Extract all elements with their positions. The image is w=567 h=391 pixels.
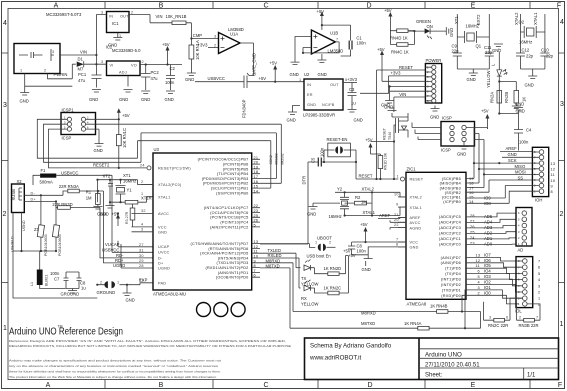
resistor RN4C 1K [397, 43, 408, 47]
svg-text:(AIN0)PD6: (AIN0)PD6 [441, 261, 461, 265]
svg-text:XT1: XT1 [454, 16, 459, 24]
svg-text:PGB1010603: PGB1010603 [44, 234, 48, 256]
svg-text:+5V: +5V [162, 42, 170, 47]
ground under IC1 [113, 38, 122, 41]
svg-text:GND: GND [410, 246, 419, 250]
svg-text:RN2A: RN2A [490, 92, 495, 103]
svg-text:USHIELD: USHIELD [11, 236, 15, 252]
svg-text:(ADC3)PC3: (ADC3)PC3 [439, 226, 461, 230]
svg-text:(RTS/AIN5/INT6)PD6: (RTS/AIN5/INT6)PD6 [208, 247, 248, 251]
op-amp U1B [311, 30, 335, 54]
ground under U1B [317, 54, 326, 63]
ZIC1 right pins PD [441, 256, 461, 298]
svg-text:(TXD)PD1: (TXD)PD1 [442, 289, 461, 293]
svg-text:9: 9 [551, 184, 553, 188]
svg-text:USBVCC: USBVCC [102, 247, 119, 252]
svg-text:Arduino UNO: Arduino UNO [425, 351, 462, 358]
svg-text:GND: GND [492, 48, 501, 53]
svg-text:TX: TX [301, 276, 307, 281]
ground above led L [494, 44, 503, 49]
svg-text:UGND: UGND [22, 220, 26, 231]
ground under jumper [123, 285, 132, 296]
svg-text:ICSP: ICSP [441, 148, 451, 153]
varistor Z2 [55, 208, 57, 252]
svg-text:VCC: VCC [158, 226, 167, 230]
svg-text:1M: 1M [86, 196, 92, 201]
svg-text:6: 6 [506, 316, 508, 320]
svg-text:1K RN2C: 1K RN2C [324, 286, 342, 291]
svg-text:GATE_CMD: GATE_CMD [252, 53, 257, 76]
svg-text:GND: GND [126, 298, 135, 303]
row tick marks left [2, 53, 9, 283]
svg-text:3: 3 [214, 35, 216, 39]
svg-text:+5V: +5V [122, 113, 130, 118]
svg-text:MISO: MISO [515, 164, 526, 169]
svg-text:100n: 100n [519, 140, 529, 145]
resistor RN4D 1K [397, 29, 408, 33]
svg-text:1: 1 [397, 175, 399, 179]
svg-text:X2: X2 [17, 179, 23, 184]
power jack X1 PWRIN [14, 44, 60, 74]
svg-text:3: 3 [489, 316, 491, 320]
ground above C4 [514, 108, 523, 111]
svg-text:XT2: XT2 [103, 174, 111, 179]
svg-text:(INT0)PD2: (INT0)PD2 [441, 283, 461, 287]
svg-text:10: 10 [394, 192, 399, 196]
svg-text:IO6: IO6 [484, 258, 491, 263]
svg-text:(PCINT7/OC0A/OC1C)PB7: (PCINT7/OC0A/OC1C)PB7 [198, 158, 249, 162]
ground for green led rotated [446, 27, 449, 35]
svg-text:+5V: +5V [481, 109, 489, 114]
svg-text:TXLED: TXLED [268, 248, 282, 253]
pin XTAL2 left [141, 184, 153, 186]
svg-text:GND: GND [449, 28, 454, 37]
ground near T2 [388, 108, 409, 117]
wire bus MOSI2 row [86, 124, 282, 183]
svg-text:The product information on the: The product information on the Web Site … [9, 375, 217, 379]
pin numbers IOL right [538, 260, 540, 307]
capacitor C1 100n [322, 25, 351, 56]
svg-text:GND: GND [165, 97, 174, 102]
svg-text:POWER: POWER [426, 58, 442, 63]
svg-text:15: 15 [469, 196, 474, 200]
svg-text:(OC1)PB1: (OC1)PB1 [442, 196, 461, 200]
ZIC1 right pins PB [440, 177, 461, 204]
AD CONNECTOR SECTION [466, 208, 532, 253]
svg-text:U2: U2 [304, 72, 310, 77]
svg-text:+5V: +5V [259, 76, 267, 81]
ground under Y2 area [309, 203, 341, 209]
svg-text:Arduino UNO Reference Design: Arduino UNO Reference Design [9, 326, 123, 338]
svg-text:PAD: PAD [158, 282, 166, 286]
svg-text:RESET2: RESET2 [93, 163, 110, 168]
svg-text:ER: ER [307, 93, 313, 97]
regulator IC1 [107, 12, 130, 33]
M8 SERIAL SECTION [260, 259, 481, 331]
wire U2 gnd pin down [293, 106, 301, 113]
svg-text:4: 4 [560, 19, 564, 26]
svg-text:ZIC1: ZIC1 [407, 167, 417, 172]
svg-text:+5V: +5V [343, 249, 351, 254]
pin RESET left [147, 166, 151, 170]
svg-text:2: 2 [214, 44, 216, 48]
wire icsp left pins [412, 123, 441, 140]
svg-text:MOSI2: MOSI2 [280, 153, 284, 164]
U3 right pins group PB [198, 158, 249, 196]
svg-text:MOSI: MOSI [515, 170, 526, 175]
svg-text:(INT1)PD3: (INT1)PD3 [441, 278, 461, 282]
svg-text:(T0)PD4: (T0)PD4 [445, 272, 461, 276]
svg-text:2: 2 [329, 241, 331, 245]
AREF C4 SECTION [481, 102, 532, 151]
svg-text:Schema By Adriano Gandolfo: Schema By Adriano Gandolfo [310, 343, 392, 350]
svg-text:RESET: RESET [383, 127, 387, 140]
svg-text:(AIN2/PCINT11)PC2: (AIN2/PCINT11)PC2 [210, 225, 248, 229]
svg-text:12: 12 [551, 168, 556, 172]
svg-text:21: 21 [394, 213, 399, 217]
+5V arrow above RN4D [389, 15, 391, 31]
svg-text:UGND: UGND [113, 263, 125, 268]
svg-text:100n: 100n [165, 80, 175, 85]
resistor RN1C 10K vertical [116, 135, 121, 146]
svg-text:C5: C5 [311, 157, 316, 163]
svg-text:(ADC5)PC5: (ADC5)PC5 [439, 215, 461, 219]
svg-text:(CTS/HWB/AIN6/TO/INT7)PD7: (CTS/HWB/AIN6/TO/INT7)PD7 [191, 242, 249, 246]
ground under R1 [93, 207, 102, 210]
ZIC1 left pins [401, 177, 405, 181]
wire usb shield gnd rail [13, 213, 97, 299]
svg-text:ICSP: ICSP [442, 116, 452, 121]
svg-text:SCK: SCK [508, 158, 517, 163]
svg-text:XT1: XT1 [123, 173, 131, 178]
svg-text:1: 1 [117, 281, 119, 285]
svg-text:AD: AD [518, 248, 524, 253]
svg-text:USBVCC: USBVCC [208, 76, 225, 81]
svg-text:2: 2 [478, 291, 480, 295]
svg-text:VO: VO [131, 64, 137, 68]
svg-text:GND: GND [307, 212, 316, 217]
svg-text:PC1: PC1 [78, 72, 87, 77]
svg-text:GND: GND [381, 103, 390, 108]
column letters bottom [46, 382, 562, 389]
wire crystal top rail [98, 180, 138, 185]
svg-text:C: C [263, 382, 268, 389]
POWERCONN SECTION [360, 47, 442, 180]
svg-text:F1: F1 [41, 168, 47, 173]
svg-text:PGB1010603: PGB1010603 [58, 234, 62, 256]
title block outer box [305, 338, 559, 380]
svg-text:27: 27 [139, 243, 144, 247]
wire R1 bottom rail [97, 185, 99, 202]
ground under C7 C8 [68, 289, 77, 294]
wire jack to VIN node [60, 54, 96, 56]
svg-text:IO5: IO5 [484, 263, 491, 268]
TXRX LED SECTION [260, 248, 351, 307]
ground under C3 [348, 110, 357, 113]
svg-text:3: 3 [52, 50, 54, 54]
ground for ZIC1 [352, 247, 406, 255]
svg-text:7: 7 [536, 316, 538, 320]
wire bus MISO2 row [141, 133, 276, 179]
svg-text:2: 2 [519, 316, 521, 320]
svg-text:GND: GND [287, 118, 296, 123]
wire IC2 ADJ to ground [127, 76, 129, 87]
svg-text:30: 30 [139, 254, 144, 258]
svg-text:Y2: Y2 [337, 187, 343, 192]
svg-text:R1: R1 [86, 190, 92, 195]
resistor RN1B [172, 21, 186, 25]
svg-text:16MHz: 16MHz [519, 40, 532, 45]
column letters top [54, 3, 561, 10]
svg-text:13: 13 [476, 253, 481, 257]
svg-text:10K_RN1B: 10K_RN1B [166, 14, 187, 19]
svg-text:10: 10 [551, 179, 556, 183]
svg-text:1K RN4B: 1K RN4B [430, 304, 448, 309]
diode D1 M7 [72, 63, 106, 65]
svg-text:(INT5/AIN3)PD4: (INT5/AIN3)PD4 [218, 256, 249, 260]
svg-text:17: 17 [469, 186, 474, 190]
wire U2 out +3V3 [343, 82, 357, 84]
svg-text:AREF: AREF [410, 216, 421, 220]
ground under PC2 [141, 91, 150, 94]
svg-text:BLM21: BLM21 [45, 275, 49, 286]
UBOOT SECTION [260, 236, 336, 259]
svg-text:AREF: AREF [506, 146, 518, 151]
svg-text:D1: D1 [78, 57, 84, 62]
svg-text:ICSP1: ICSP1 [62, 108, 75, 113]
svg-text:Q2: Q2 [519, 20, 525, 25]
svg-text:18: 18 [469, 182, 474, 186]
pin numbers IOH right [551, 162, 556, 194]
capacitor C8 1u [66, 272, 82, 289]
svg-text:4: 4 [141, 223, 143, 227]
wire bus SCK2 row [138, 141, 271, 188]
svg-text:GND: GND [515, 102, 524, 107]
svg-text:C4: C4 [526, 128, 532, 133]
wire SPI risers from ZIC1 [466, 178, 489, 192]
svg-text:22p: 22p [526, 54, 534, 59]
svg-text:11: 11 [476, 264, 480, 268]
title block row lines [419, 349, 559, 380]
OPAMP U1B SECTION [290, 9, 367, 77]
svg-text:C: C [263, 3, 268, 10]
svg-text:GND: GND [362, 267, 371, 272]
crystal Y1 [108, 180, 113, 203]
svg-text:1K RN4A: 1K RN4A [404, 321, 422, 326]
column tick marks top [105, 2, 530, 9]
svg-text:XTAL1: XTAL1 [533, 12, 538, 25]
svg-text:M8TXD: M8TXD [361, 321, 375, 326]
svg-text:RN4D 1K: RN4D 1K [390, 36, 408, 41]
svg-text:(PCINT5)PB5: (PCINT5)PB5 [223, 167, 249, 171]
svg-text:B: B [159, 3, 164, 10]
svg-text:3: 3 [101, 11, 103, 15]
DTR RESET SECTION [260, 103, 440, 245]
svg-text:28: 28 [139, 264, 144, 268]
svg-text:(XCK/AIN4/PCINT12)PD5: (XCK/AIN4/PCINT12)PD5 [200, 252, 249, 256]
svg-text:(PDI/MOSI/PCINT2)PB2: (PDI/MOSI/PCINT2)PB2 [203, 182, 249, 186]
wires 22R to IOL [484, 298, 541, 320]
svg-text:(AIN0/INT1)PD1: (AIN0/INT1)PD1 [218, 271, 249, 275]
svg-text:Q1: Q1 [476, 44, 482, 49]
connector IOH [532, 147, 548, 196]
svg-text:1: 1 [141, 192, 143, 196]
svg-text:27/11/2010 20.40.51: 27/11/2010 20.40.51 [425, 362, 480, 368]
svg-text:1: 1 [299, 78, 301, 82]
svg-text:31: 31 [139, 248, 144, 252]
wire USBVCC line [195, 81, 305, 83]
ground under PC1 [92, 90, 101, 93]
junction dots serial [461, 310, 463, 312]
svg-text:32: 32 [141, 209, 146, 213]
svg-text:(RXD)PD0: (RXD)PD0 [441, 294, 461, 298]
XT1 CRYSTAL SECTION [96, 173, 153, 204]
svg-text:1: 1 [538, 297, 540, 301]
ground under RN1A [187, 73, 196, 76]
+5V arrow on USBVCC [274, 68, 276, 82]
svg-text:(RXD1/AIN1/INT2)PD2: (RXD1/AIN1/INT2)PD2 [205, 266, 248, 270]
svg-text:13: 13 [551, 162, 556, 166]
svg-text:VCC: VCC [410, 241, 419, 245]
wire crystal to XTAL2 pin [138, 184, 154, 186]
svg-text:(PCINT6)PB6: (PCINT6)PB6 [223, 163, 249, 167]
svg-text:VIN: VIN [80, 50, 87, 55]
wire CMP [191, 23, 218, 39]
ground label under crystal caps [106, 203, 115, 209]
resistor RN2A 1K vertical [497, 91, 502, 104]
resistor RN1D 10K vertical [378, 156, 383, 169]
svg-text:IO2: IO2 [484, 280, 491, 285]
U3 right pins group PD [191, 242, 249, 280]
wire from X2 to U3 net labels [100, 191, 104, 256]
TITLEBLOCK [305, 338, 559, 380]
svg-text:(ADC1)PC1: (ADC1)PC1 [439, 237, 461, 241]
svg-text:+5V: +5V [270, 61, 278, 66]
wire GATE_CMD [240, 43, 254, 73]
svg-text:PWRIN: PWRIN [54, 72, 68, 77]
ICSP RIGHT SECTION [412, 116, 487, 157]
svg-text:(OC0B/INT0)PD0: (OC0B/INT0)PD0 [216, 276, 249, 280]
wire jack pin2 to diode [48, 64, 73, 79]
RN4 LED SECTION [384, 8, 454, 55]
wire icsp1 left col loop [37, 119, 141, 168]
svg-text:+5V: +5V [348, 253, 356, 258]
svg-text:5: 5 [478, 275, 480, 279]
svg-text:MC33269D-5.0: MC33269D-5.0 [112, 48, 141, 53]
svg-text:ATMEGA8U2-MU: ATMEGA8U2-MU [153, 292, 186, 297]
resistor RN2C 22R [489, 319, 511, 321]
svg-text:A: A [54, 3, 59, 10]
svg-text:T540: T540 [388, 132, 392, 140]
svg-text:1: 1 [20, 69, 22, 73]
svg-text:3: 3 [560, 101, 564, 108]
wire PD7 to UBOOT [260, 244, 315, 248]
svg-text:GND: GND [430, 115, 439, 120]
svg-text:16MHz: 16MHz [123, 179, 136, 184]
svg-text:1/1: 1/1 [527, 372, 536, 378]
svg-text:VI: VI [110, 64, 114, 68]
svg-text:GND: GND [100, 212, 109, 217]
svg-text:47u: 47u [151, 76, 159, 81]
svg-text:E: E [471, 382, 476, 389]
svg-text:(SCLK/PCINT1)PB1: (SCLK/PCINT1)PB1 [211, 187, 249, 191]
svg-text:5: 5 [538, 272, 540, 276]
svg-text:RN3B 22R: RN3B 22R [519, 323, 539, 328]
svg-text:RN1D 10K: RN1D 10K [384, 152, 388, 170]
svg-text:(ADC0)PC0: (ADC0)PC0 [439, 243, 461, 247]
column tick marks bottom [105, 380, 530, 389]
svg-text:1K RN2D: 1K RN2D [324, 266, 342, 271]
svg-text:2: 2 [141, 180, 143, 184]
svg-text:U3: U3 [154, 147, 160, 152]
svg-text:(SS/PCINT0)PB0: (SS/PCINT0)PB0 [216, 191, 248, 195]
resistor R3 27R vertical [130, 208, 135, 220]
svg-text:IO4: IO4 [484, 269, 491, 274]
svg-text:3: 3 [141, 227, 143, 231]
svg-text:2: 2 [131, 11, 133, 15]
svg-text:10K RN1C: 10K RN1C [122, 128, 127, 148]
svg-text:XTAL2: XTAL2 [362, 187, 375, 192]
svg-text:C2: C2 [170, 66, 176, 71]
svg-text:3: 3 [538, 284, 540, 288]
op-amp U1A [219, 33, 241, 54]
svg-text:RESET: RESET [359, 174, 373, 179]
svg-text:Arduino may make changes to sp: Arduino may make changes to specificatio… [9, 359, 221, 363]
svg-text:USBVCC: USBVCC [61, 171, 78, 176]
+5V arrow icsp right [486, 117, 488, 129]
svg-text:(OC1A/PCINT8)PC6: (OC1A/PCINT8)PC6 [210, 211, 248, 215]
svg-text:D-: D- [158, 256, 163, 260]
svg-text:4: 4 [538, 278, 540, 282]
svg-text:RESET: RESET [410, 178, 424, 182]
svg-text:F: F [558, 382, 562, 389]
svg-text:VIN: VIN [399, 92, 406, 97]
svg-text:AVCC: AVCC [158, 212, 169, 216]
svg-text:(T1/PCINT4)PB4: (T1/PCINT4)PB4 [217, 172, 249, 176]
svg-text:+3V3: +3V3 [198, 43, 209, 48]
svg-text:GND: GND [516, 109, 525, 114]
connector AD [516, 208, 532, 247]
svg-text:D+: D+ [158, 261, 164, 265]
svg-text:IO3: IO3 [484, 274, 491, 279]
svg-text:IO0: IO0 [484, 290, 491, 295]
svg-text:TM: TM [58, 325, 63, 329]
USB SECTION [11, 168, 154, 303]
wire AVCC AGND into ZIC1 [390, 220, 406, 229]
svg-text:(PD0/MISO/PCINT3)PB3: (PD0/MISO/PCINT3)PB3 [202, 177, 249, 181]
svg-text:Y1: Y1 [127, 188, 133, 193]
ground under RN2B [512, 106, 521, 109]
LED L SECTION [486, 44, 527, 164]
jumper GROUND pads [97, 284, 133, 286]
capacitor C4 100n [514, 111, 523, 151]
Y2 CRYSTAL SECTION [307, 187, 406, 273]
svg-text:UVCC: UVCC [158, 251, 170, 255]
capacitor PC2 47u [141, 65, 150, 91]
svg-text:U1A: U1A [230, 32, 238, 37]
+5V rail from IC2 [140, 64, 182, 66]
svg-text:GND: GND [307, 103, 316, 107]
svg-text:(PCINT9/OC1B)PC5: (PCINT9/OC1B)PC5 [210, 216, 248, 220]
svg-text:D: D [366, 3, 371, 10]
svg-text:8: 8 [396, 242, 398, 246]
svg-text:2: 2 [100, 281, 102, 285]
ground under ICSP [460, 142, 469, 149]
SERIAL 22R SECTION [484, 298, 541, 328]
svg-text:D+: D+ [31, 197, 37, 201]
svg-text:B: B [159, 382, 164, 389]
svg-text:ATMEGA8: ATMEGA8 [407, 302, 427, 307]
